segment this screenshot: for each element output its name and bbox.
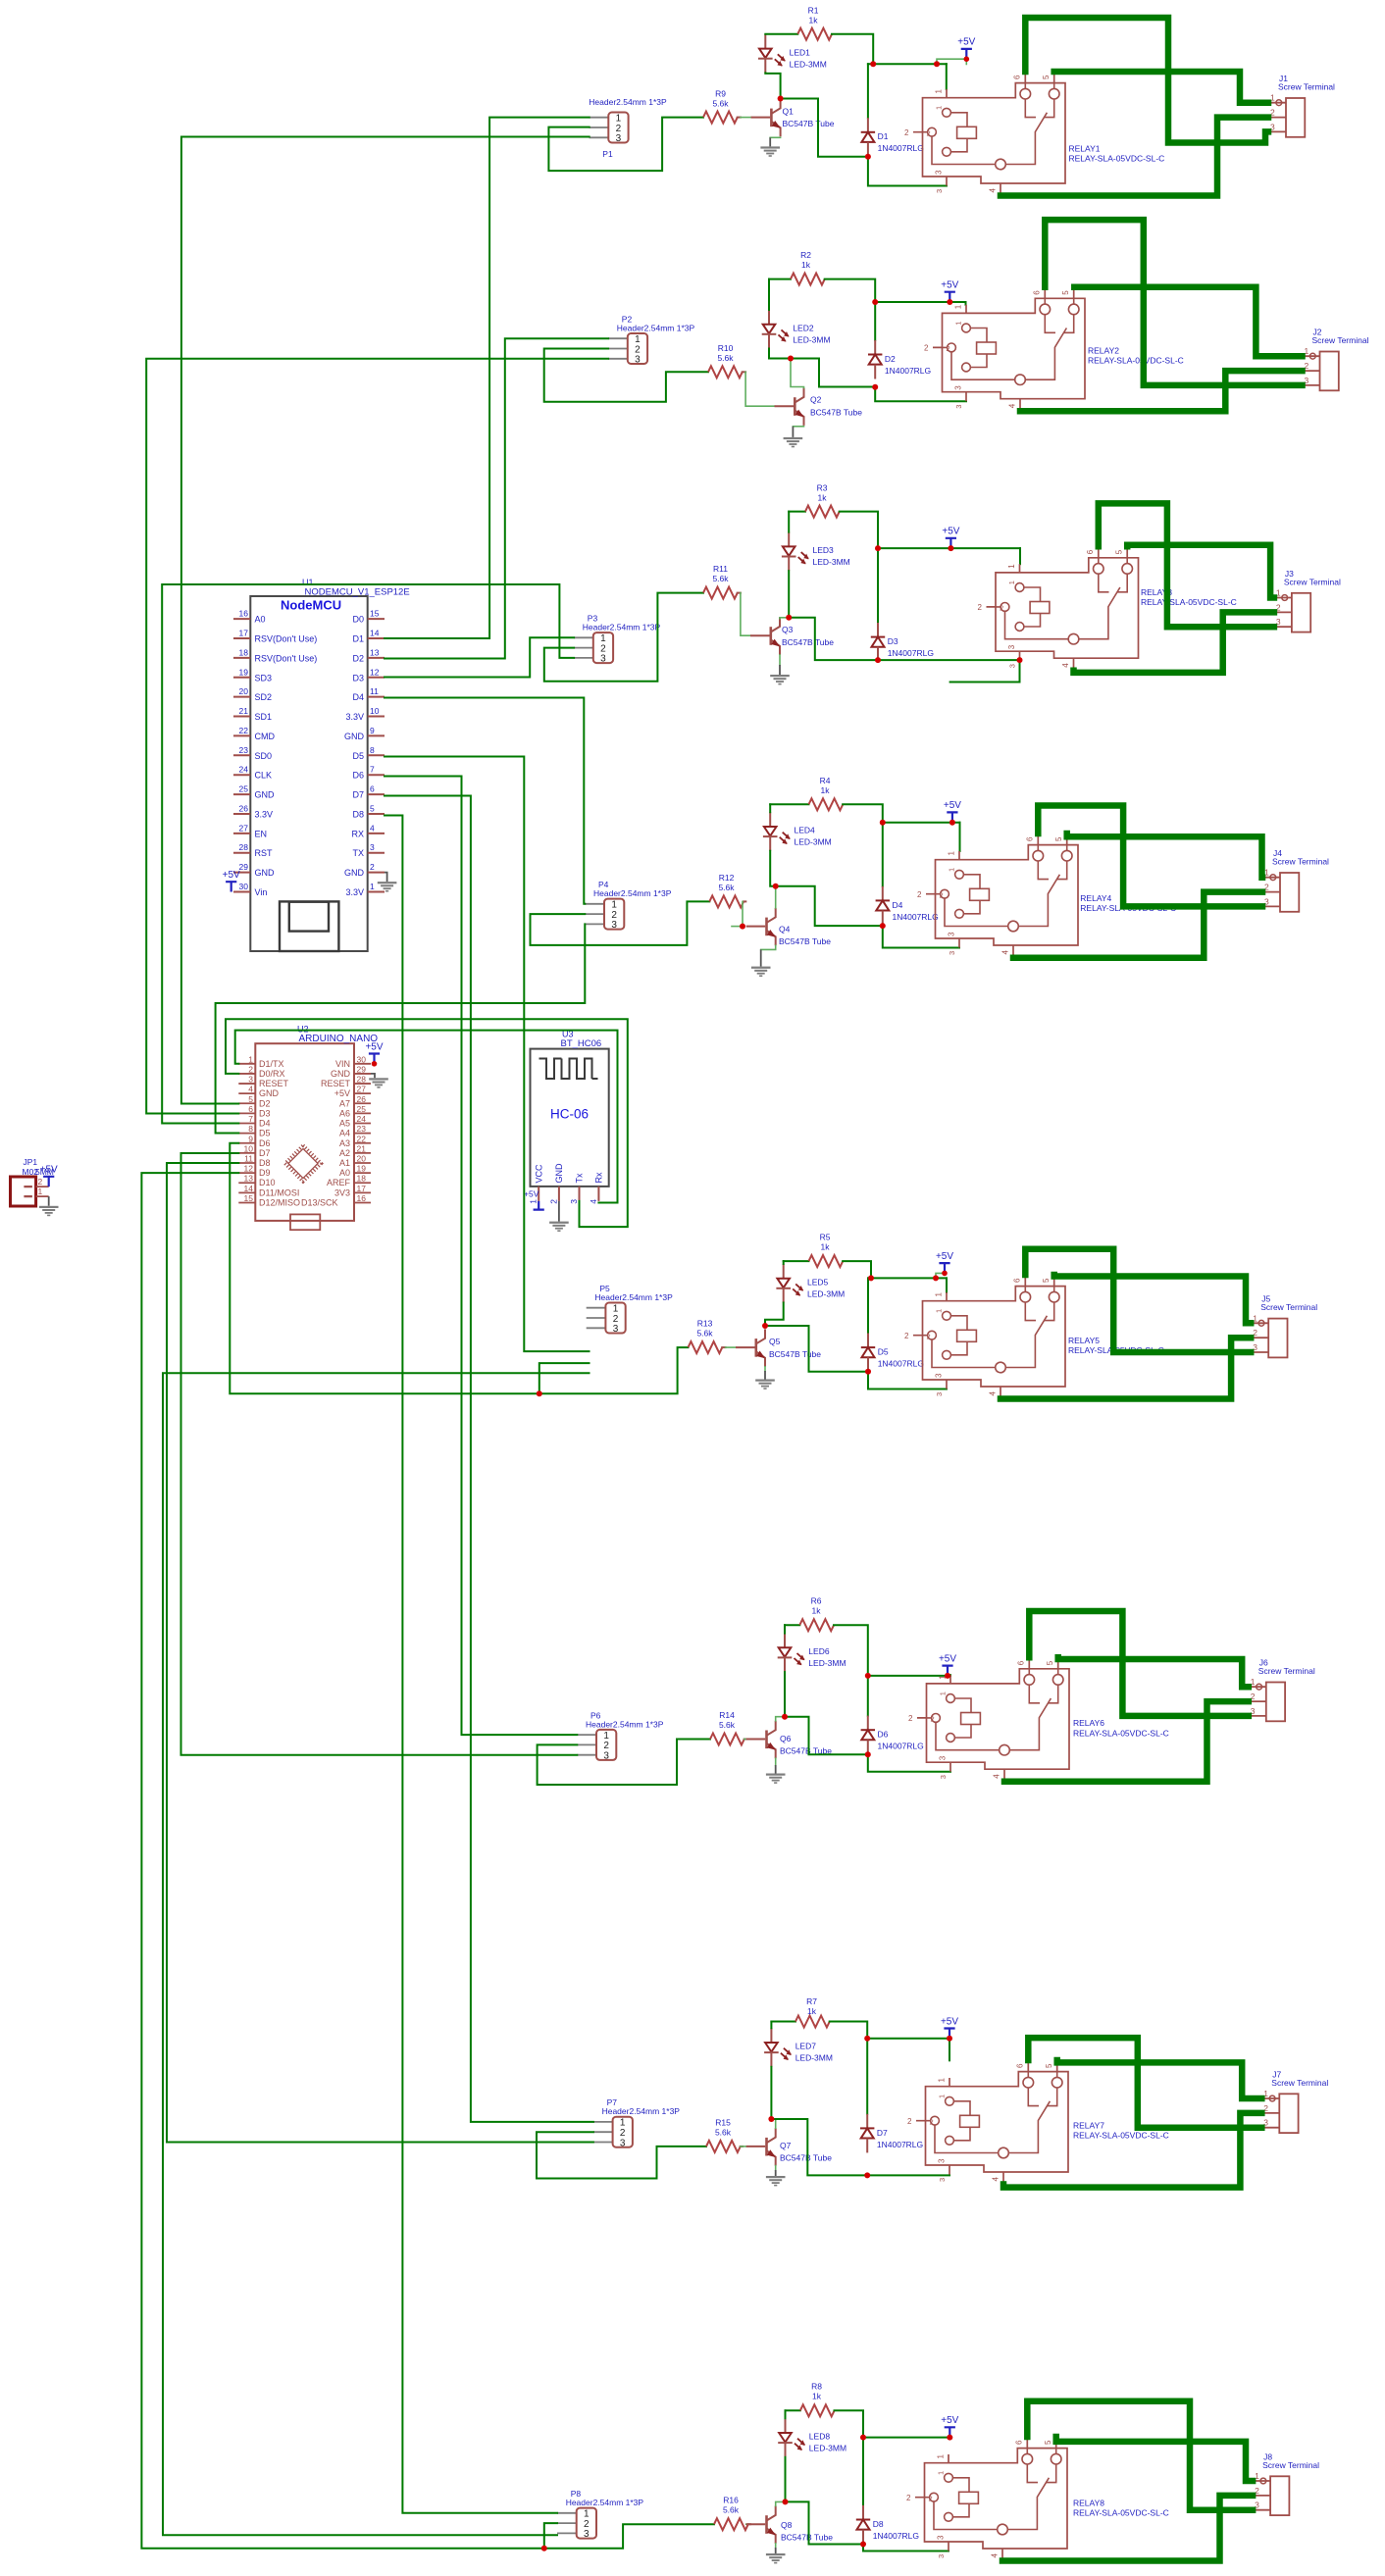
wire R4 to LED4 — [769, 804, 771, 812]
junction at D5 anode — [865, 1369, 871, 1375]
svg-text:1N4007RLG: 1N4007RLG — [877, 2140, 923, 2149]
svg-text:9: 9 — [370, 726, 375, 735]
svg-text:RELAY-SLA-05VDC-SL-C: RELAY-SLA-05VDC-SL-C — [1073, 2131, 1169, 2141]
svg-text:D0: D0 — [352, 615, 364, 625]
wire P4 pin3 to U2 D5 — [216, 924, 586, 1133]
wire +5V stub — [936, 1273, 945, 1278]
svg-text:8: 8 — [370, 745, 375, 755]
wire R5 to +5V rail — [843, 1261, 871, 1278]
svg-text:3: 3 — [954, 405, 963, 409]
wire R9 to Q1 base — [741, 117, 751, 119]
svg-text:2: 2 — [917, 890, 922, 899]
thick wire relay8 pin5 to J8 pin1 — [1056, 2437, 1253, 2481]
junction — [942, 1271, 948, 1277]
relay RELAY8 — [925, 2449, 1068, 2549]
wire P6 pin2 to R14 — [538, 1740, 710, 1786]
svg-text:LED-3MM: LED-3MM — [809, 2444, 846, 2453]
junction at D8 anode — [860, 2542, 866, 2548]
wire D3 to relay3 pin3 — [878, 659, 1020, 661]
wire LED1 cathode to Q1 collector — [765, 73, 780, 98]
thick wire relay2 pin5 to J2 pin1 — [1074, 287, 1302, 357]
svg-text:RESET: RESET — [259, 1079, 289, 1088]
junction — [947, 2435, 952, 2441]
junction — [947, 299, 952, 305]
wire collector node to D5 anode — [765, 1326, 868, 1372]
svg-text:6: 6 — [1015, 2440, 1024, 2445]
svg-text:D8: D8 — [873, 2519, 884, 2529]
svg-text:6: 6 — [1016, 2063, 1025, 2068]
wire D7 to relay7 pin3 — [867, 2174, 949, 2176]
stub below relay3 pin3 — [950, 660, 1020, 682]
svg-text:10: 10 — [370, 706, 380, 716]
svg-text:1N4007RLG: 1N4007RLG — [878, 1359, 924, 1369]
svg-text:4: 4 — [370, 823, 375, 833]
svg-text:RST: RST — [255, 848, 274, 858]
svg-text:25: 25 — [239, 784, 249, 794]
svg-text:A0: A0 — [339, 1168, 350, 1178]
wire P1 pin2 to R9 — [548, 118, 703, 172]
svg-text:LED1: LED1 — [790, 47, 811, 57]
wire collector to D1 anode — [781, 99, 868, 157]
svg-text:14: 14 — [244, 1184, 254, 1193]
transistor Q3 BC547B — [750, 634, 770, 636]
thick wire relay4 pin6 to J4 pin3 — [1038, 806, 1262, 907]
thick wire relay6 pin4 to J6 pin2 — [1004, 1701, 1249, 1782]
thick wire relay6 pin6 to J6 pin3 — [1029, 1611, 1249, 1716]
svg-text:RELAY-SLA-05VDC-SL-C: RELAY-SLA-05VDC-SL-C — [1088, 356, 1184, 366]
junction at Q3 collector — [786, 615, 792, 621]
svg-text:1N4007RLG: 1N4007RLG — [893, 912, 939, 922]
svg-text:2: 2 — [907, 2117, 912, 2126]
wire Q5 emitter to ground — [764, 1367, 766, 1371]
wire D5 to relay5 pin3 — [868, 1372, 947, 1389]
svg-text:RELAY2: RELAY2 — [1088, 346, 1119, 356]
svg-text:5: 5 — [370, 803, 375, 813]
svg-text:Screw Terminal: Screw Terminal — [1284, 577, 1341, 586]
svg-text:RX: RX — [351, 829, 364, 838]
svg-text:JP1: JP1 — [24, 1157, 38, 1167]
wire R1 to +5V rail — [832, 34, 873, 64]
svg-text:A4: A4 — [339, 1129, 350, 1138]
svg-text:LED-3MM: LED-3MM — [808, 1658, 846, 1668]
svg-text:EN: EN — [255, 829, 268, 838]
svg-text:1: 1 — [1007, 581, 1016, 584]
svg-text:A7: A7 — [339, 1098, 350, 1108]
junction — [865, 1673, 871, 1679]
svg-text:RSV(Don't Use): RSV(Don't Use) — [255, 633, 318, 643]
svg-text:1k: 1k — [812, 1606, 822, 1616]
svg-text:Screw Terminal: Screw Terminal — [1278, 82, 1335, 92]
resistor R10 5.6k — [708, 366, 743, 378]
wire Q8 emitter to ground — [775, 2544, 777, 2548]
diode D8 1N4007RLG — [862, 2438, 864, 2505]
wire U3 Tx to U2 D0/RX — [226, 1019, 628, 1227]
svg-text:RESET: RESET — [321, 1079, 351, 1088]
svg-text:Q4: Q4 — [779, 925, 791, 934]
resistor R1 1k — [797, 28, 832, 40]
junction at Q4 base — [740, 924, 745, 930]
transistor Q8 BC547B — [746, 2523, 766, 2525]
svg-text:D13/SCK: D13/SCK — [301, 1198, 338, 1208]
svg-text:R11: R11 — [713, 564, 728, 574]
svg-text:1k: 1k — [821, 785, 831, 795]
wire LED8 cathode to collector node — [785, 2457, 787, 2502]
junction at D4 anode — [880, 923, 886, 929]
wire R4 to +5V rail — [843, 804, 883, 822]
wire collector node to D6 anode — [785, 1717, 868, 1755]
wire D1 to relay pin3 — [868, 157, 947, 186]
svg-text:2: 2 — [1000, 604, 1003, 613]
svg-text:SD0: SD0 — [255, 751, 273, 761]
svg-text:A0: A0 — [255, 615, 266, 625]
header P5 — [587, 1307, 606, 1309]
svg-text:4: 4 — [993, 1774, 1001, 1779]
svg-text:3: 3 — [939, 1775, 948, 1779]
junction — [934, 61, 940, 67]
wire D4 to relay4 pin3 — [883, 926, 959, 947]
transistor Q6 BC547B — [746, 1739, 766, 1741]
svg-text:Header2.54mm 1*3P: Header2.54mm 1*3P — [594, 1292, 673, 1302]
wire Q3 collector jog — [780, 618, 789, 619]
svg-text:BC547B Tube: BC547B Tube — [810, 408, 862, 418]
svg-text:3: 3 — [937, 2535, 946, 2540]
svg-text:D0/RX: D0/RX — [259, 1069, 285, 1079]
thick wire relay5 pin6 to J5 pin3 — [1025, 1249, 1251, 1352]
svg-text:6: 6 — [370, 784, 375, 794]
svg-text:27: 27 — [357, 1085, 367, 1094]
+5V supply channel1 — [961, 49, 972, 59]
svg-text:+5V: +5V — [40, 1165, 58, 1176]
svg-text:6: 6 — [1026, 836, 1035, 841]
wire Q3 emitter to ground — [779, 655, 781, 665]
svg-text:7: 7 — [248, 1114, 253, 1124]
svg-text:A2: A2 — [339, 1148, 350, 1158]
svg-text:5.6k: 5.6k — [712, 99, 729, 109]
wire P2 pin3 to left bus — [146, 359, 608, 1114]
relay RELAY4 — [936, 845, 1079, 945]
wire R3 to LED3 — [788, 512, 790, 532]
relay RELAY6 — [927, 1669, 1070, 1769]
svg-text:24: 24 — [239, 765, 249, 775]
svg-text:11: 11 — [244, 1154, 253, 1164]
svg-text:3: 3 — [954, 385, 963, 390]
svg-text:Screw Terminal: Screw Terminal — [1272, 857, 1329, 867]
svg-text:1: 1 — [939, 1692, 948, 1695]
svg-text:3.3V: 3.3V — [255, 809, 274, 819]
svg-text:5.6k: 5.6k — [719, 1720, 736, 1730]
svg-text:28: 28 — [239, 842, 249, 852]
wire P2 pin2 to R10 — [544, 349, 708, 402]
ground at U1 GND pin2 — [385, 873, 387, 883]
svg-text:17: 17 — [357, 1184, 367, 1193]
svg-text:2: 2 — [947, 344, 950, 353]
svg-text:1: 1 — [935, 106, 944, 110]
ground at U3 GND — [558, 1201, 560, 1222]
wire collector node to D2 anode — [819, 359, 875, 387]
svg-text:1N4007RLG: 1N4007RLG — [878, 143, 924, 153]
svg-text:15: 15 — [244, 1193, 254, 1203]
svg-text:2: 2 — [908, 1714, 913, 1723]
junction at Q1 collector — [778, 96, 784, 102]
svg-text:26: 26 — [357, 1094, 367, 1104]
svg-text:LED-3MM: LED-3MM — [795, 2053, 833, 2063]
svg-text:R16: R16 — [723, 2496, 739, 2505]
svg-text:HC-06: HC-06 — [550, 1107, 589, 1122]
wire R14 to Q6 base — [744, 1739, 746, 1741]
resistor R11 5.6k — [703, 587, 738, 599]
wire collector node to D8 anode — [786, 2501, 864, 2544]
thick wire relay6 pin5 to J6 pin1 — [1058, 1657, 1249, 1687]
svg-text:BC547B Tube: BC547B Tube — [781, 2533, 833, 2543]
svg-text:SD1: SD1 — [255, 712, 273, 722]
svg-text:+5V: +5V — [936, 1251, 953, 1262]
svg-text:1: 1 — [954, 304, 963, 309]
wire R2 to +5V rail — [825, 279, 876, 302]
svg-text:Header2.54mm 1*3P: Header2.54mm 1*3P — [589, 97, 667, 107]
ground at Q4 — [751, 967, 771, 969]
svg-text:14: 14 — [370, 628, 380, 637]
wire Q6 emitter to ground — [775, 1758, 777, 1765]
thick wire relay3 pin6 to J3 pin3 — [1099, 503, 1274, 627]
junction at D2 anode — [872, 384, 878, 390]
svg-text:P1: P1 — [602, 149, 613, 159]
svg-text:Header2.54mm 1*3P: Header2.54mm 1*3P — [617, 324, 695, 333]
relay RELAY2 — [943, 298, 1086, 398]
thick wire relay5 pin5 to J5 pin1 — [1054, 1275, 1252, 1323]
svg-text:3: 3 — [635, 355, 641, 366]
svg-text:+5V: +5V — [941, 2016, 958, 2027]
resistor R7 1k — [795, 2016, 830, 2028]
ground at Q6 — [766, 1774, 786, 1776]
wire LED3 cathode to collector node — [788, 571, 790, 618]
wire U1 D3 to P3 pin1 — [385, 637, 574, 677]
svg-text:R7: R7 — [806, 1996, 817, 2006]
+5V rail channel5 — [868, 1277, 947, 1279]
wire R8 to +5V rail — [835, 2410, 864, 2437]
svg-text:28: 28 — [357, 1075, 367, 1085]
wire U1 D2 to P2 pin1 — [385, 338, 608, 658]
svg-text:D5: D5 — [878, 1347, 889, 1357]
svg-text:6: 6 — [1017, 1660, 1026, 1665]
junction at Q5 collector — [762, 1323, 768, 1329]
svg-text:29: 29 — [357, 1064, 367, 1074]
svg-text:+5V: +5V — [334, 1088, 350, 1098]
svg-text:3: 3 — [939, 1755, 948, 1760]
LED LED8 — [785, 2418, 787, 2433]
junction — [864, 2036, 870, 2042]
svg-text:3: 3 — [370, 842, 375, 852]
wire Q6 collector jog — [776, 1717, 785, 1721]
IC U3 HC-06 bluetooth module — [531, 1049, 609, 1187]
wire R7 to +5V rail — [830, 2022, 868, 2039]
diode D3 1N4007RLG — [877, 548, 879, 623]
svg-text:Q3: Q3 — [782, 625, 794, 634]
wire U1 D4 to P4 pin1 — [385, 698, 585, 904]
svg-text:5.6k: 5.6k — [696, 1329, 713, 1339]
svg-text:Screw Terminal: Screw Terminal — [1260, 1302, 1317, 1312]
wire R10 to Q2 base — [745, 372, 774, 406]
svg-text:+5V: +5V — [223, 870, 240, 881]
LED LED1 — [764, 34, 766, 49]
svg-text:2: 2 — [548, 1199, 558, 1204]
svg-text:1N4007RLG: 1N4007RLG — [885, 366, 931, 376]
wire Q7 emitter to ground — [775, 2166, 777, 2170]
svg-text:22: 22 — [357, 1134, 367, 1143]
svg-text:A3: A3 — [339, 1138, 350, 1148]
svg-text:5: 5 — [1044, 2440, 1052, 2445]
svg-text:RELAY-SLA-05VDC-SL-C: RELAY-SLA-05VDC-SL-C — [1073, 1728, 1169, 1738]
thick wire relay1 pin4 to J1 pin2 — [1000, 118, 1268, 196]
svg-text:A6: A6 — [339, 1108, 350, 1118]
junction — [868, 1275, 874, 1281]
svg-text:RELAY-SLA-05VDC-SL-C: RELAY-SLA-05VDC-SL-C — [1073, 2508, 1169, 2518]
svg-text:5.6k: 5.6k — [723, 2505, 740, 2515]
thick wire relay3 pin5 to J3 pin1 — [1127, 545, 1274, 598]
transistor Q2 BC547B — [775, 405, 795, 407]
svg-text:1: 1 — [935, 89, 944, 94]
junction at Q2 collector — [788, 356, 794, 362]
+5V supply channel6 — [942, 1666, 952, 1676]
wire collector node to D4 anode — [776, 886, 883, 926]
svg-text:RSV(Don't Use): RSV(Don't Use) — [255, 653, 318, 663]
ground at Q1 — [760, 146, 780, 148]
svg-text:R5: R5 — [820, 1233, 831, 1242]
svg-text:27: 27 — [239, 823, 249, 833]
svg-text:D6: D6 — [259, 1138, 271, 1148]
svg-text:Rx: Rx — [594, 1172, 604, 1183]
svg-text:LED-3MM: LED-3MM — [795, 837, 832, 847]
svg-text:Q7: Q7 — [780, 2141, 792, 2150]
svg-text:R14: R14 — [719, 1710, 735, 1720]
svg-text:D8: D8 — [259, 1158, 271, 1168]
+5V supply at U2 VIN — [369, 1054, 380, 1064]
wire collector node to D7 anode — [771, 2119, 867, 2175]
svg-text:GND: GND — [344, 868, 365, 878]
svg-text:Q1: Q1 — [783, 107, 795, 117]
svg-text:23: 23 — [239, 745, 249, 755]
svg-text:2: 2 — [927, 1333, 931, 1341]
svg-text:5: 5 — [1045, 2063, 1053, 2068]
svg-text:LED-3MM: LED-3MM — [793, 334, 830, 344]
svg-text:RELAY7: RELAY7 — [1073, 2120, 1104, 2130]
svg-text:BC547B Tube: BC547B Tube — [782, 637, 834, 647]
svg-text:D8: D8 — [352, 809, 364, 819]
svg-text:20: 20 — [239, 686, 249, 696]
+5V rail channel2 — [875, 301, 965, 303]
diode D5 1N4007RLG — [867, 1278, 869, 1333]
svg-text:24: 24 — [357, 1114, 367, 1124]
svg-text:Vin: Vin — [255, 887, 268, 897]
svg-text:30: 30 — [239, 882, 249, 891]
svg-text:2: 2 — [904, 128, 909, 137]
svg-text:1: 1 — [38, 1187, 43, 1196]
transistor Q7 BC547B — [746, 2146, 766, 2147]
junction at D7 anode — [864, 2172, 870, 2178]
resistor R9 5.6k — [703, 112, 738, 124]
svg-text:23: 23 — [357, 1124, 367, 1134]
svg-text:1: 1 — [935, 1292, 944, 1297]
svg-text:3: 3 — [1007, 644, 1016, 649]
junction — [875, 545, 881, 551]
svg-text:3.3V: 3.3V — [345, 712, 364, 722]
wire LED7 cathode to collector node — [770, 2067, 772, 2119]
+5V supply channel2 — [945, 292, 955, 302]
svg-text:29: 29 — [239, 862, 249, 872]
LED LED7 — [770, 2028, 772, 2043]
svg-text:3: 3 — [600, 654, 606, 665]
svg-text:1: 1 — [935, 1309, 944, 1313]
thick wire relay7 pin4 to J7 pin2 — [1003, 2113, 1261, 2188]
svg-text:1: 1 — [948, 868, 956, 872]
wire P5 row2 to signal — [539, 1363, 590, 1393]
resistor R14 5.6k — [710, 1734, 744, 1745]
ground at U2 GND pin29 — [371, 1074, 375, 1078]
svg-text:3: 3 — [611, 920, 617, 931]
svg-text:D10: D10 — [259, 1178, 276, 1187]
svg-text:Screw Terminal: Screw Terminal — [1262, 2460, 1319, 2470]
wire P4 pin2 to R12 — [531, 901, 710, 945]
svg-text:GND: GND — [344, 732, 365, 741]
wire U1 D5 toward P5 row1 — [385, 757, 590, 1352]
svg-text:RELAY1: RELAY1 — [1069, 144, 1101, 154]
svg-text:4: 4 — [991, 2553, 1000, 2558]
thick wire relay7 pin5 to J7 pin1 — [1057, 2060, 1262, 2098]
resistor R12 5.6k — [709, 895, 744, 907]
svg-text:D4: D4 — [893, 900, 903, 910]
svg-text:12: 12 — [244, 1164, 254, 1174]
svg-text:5: 5 — [1042, 75, 1051, 79]
svg-text:Header2.54mm 1*3P: Header2.54mm 1*3P — [586, 1719, 664, 1729]
svg-text:A5: A5 — [339, 1119, 350, 1129]
svg-text:Screw Terminal: Screw Terminal — [1271, 2078, 1328, 2088]
resistor R5 1k — [809, 1255, 844, 1267]
diode D2 1N4007RLG — [874, 302, 876, 340]
ground at Q3 — [770, 675, 790, 677]
wire R16 to Q8 base — [746, 2523, 748, 2525]
svg-text:D4: D4 — [259, 1119, 271, 1129]
svg-text:19: 19 — [357, 1164, 367, 1174]
svg-text:+5V: +5V — [939, 1653, 956, 1664]
wire P3 pin2 to R11 — [544, 593, 703, 682]
svg-text:Header2.54mm 1*3P: Header2.54mm 1*3P — [593, 888, 672, 898]
svg-text:SD3: SD3 — [255, 673, 273, 682]
svg-text:+5V: +5V — [365, 1041, 383, 1052]
svg-text:D1: D1 — [878, 131, 889, 141]
svg-text:4: 4 — [989, 188, 998, 193]
svg-text:1N4007RLG: 1N4007RLG — [878, 1742, 924, 1751]
svg-text:Screw Terminal: Screw Terminal — [1312, 335, 1369, 345]
wire R13 to Q5 base — [726, 1346, 737, 1348]
svg-text:CLK: CLK — [255, 771, 273, 781]
header P7 — [593, 2121, 613, 2123]
svg-text:+5V: +5V — [941, 280, 958, 291]
svg-text:1: 1 — [948, 851, 956, 856]
svg-text:1k: 1k — [809, 16, 819, 25]
svg-text:R3: R3 — [817, 483, 828, 493]
header P3 — [574, 636, 593, 638]
+5V supply channel7 — [944, 2029, 954, 2039]
svg-text:R13: R13 — [697, 1319, 713, 1329]
svg-text:D2: D2 — [885, 354, 896, 364]
svg-text:5: 5 — [1042, 1278, 1051, 1283]
svg-text:16: 16 — [239, 609, 249, 619]
thick wire relay8 pin4 to J8 pin2 — [1002, 2496, 1253, 2561]
svg-text:D5: D5 — [259, 1129, 271, 1138]
svg-text:2: 2 — [978, 603, 983, 612]
svg-text:6: 6 — [1013, 75, 1022, 79]
svg-text:25: 25 — [357, 1104, 367, 1114]
svg-text:1: 1 — [937, 2454, 946, 2459]
